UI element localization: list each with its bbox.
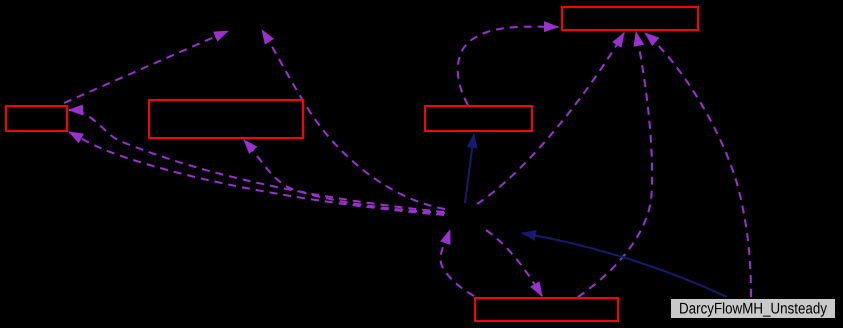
edge E10: center hidden node to bottom red box (dashed) xyxy=(486,230,542,296)
edge E1: small left box to top-left hidden node (dashed) xyxy=(64,31,228,103)
node: bottom red box xyxy=(475,298,618,321)
edge E9: middle red box to top red box left edge (dashed hook) xyxy=(458,27,558,105)
edge E5: center hidden node to big left box (dashed) xyxy=(244,140,445,213)
edge E2: center hidden node to top-left hidden node (dashed) xyxy=(262,30,445,209)
edge E8: DarcyFlowMH_Unsteady to top red box (dashed arc) xyxy=(645,33,751,297)
node: middle red box xyxy=(425,106,532,131)
edge E6: center hidden node to top red box bottom-left (dashed) xyxy=(477,33,624,204)
node: big left red box xyxy=(149,100,303,138)
edge E7: bottom red box to top red box (dashed) xyxy=(578,32,652,297)
edge E4: center hidden node to small left box lower (dashed) xyxy=(69,132,444,215)
node: DarcyFlowMH_Unsteady gray box xyxy=(670,298,836,319)
edge E3: center hidden node to small left box upper (dashed) xyxy=(69,110,444,212)
edge N1: center hidden node to middle red box (navy solid) xyxy=(465,134,474,203)
node: small left red box xyxy=(6,106,67,131)
edge N2: DarcyFlowMH_Unsteady to center hidden node (navy solid) xyxy=(522,233,727,297)
node: top red box xyxy=(562,7,698,30)
edge E11: bottom red box to center hidden node (dashed) xyxy=(440,230,474,296)
